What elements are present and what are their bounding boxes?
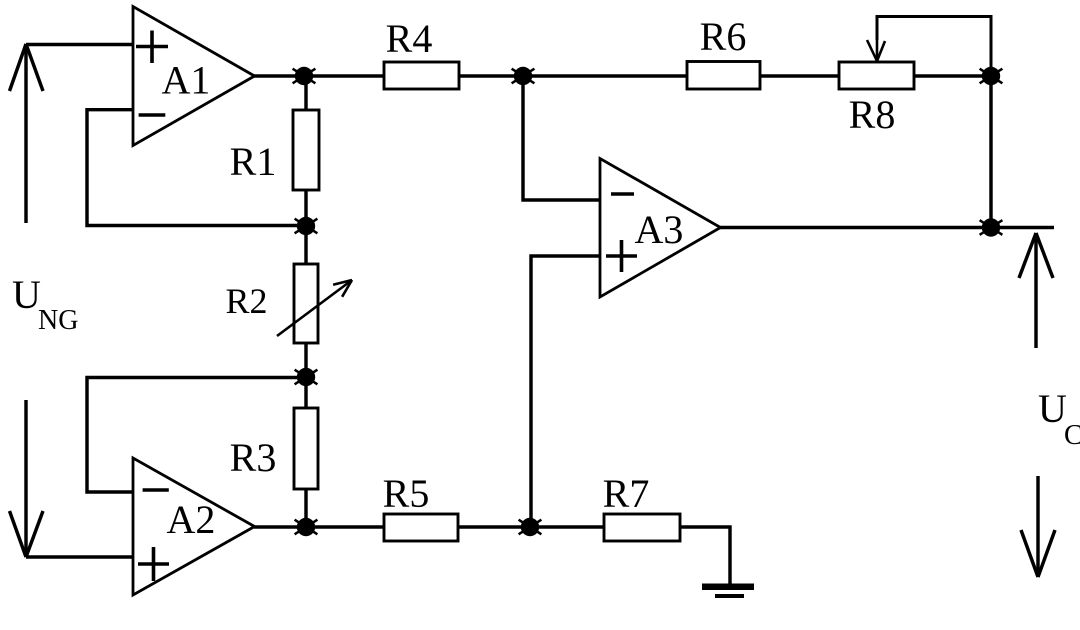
- wire: A3 output: [720, 226, 1054, 229]
- wire: R2 bottom: [304, 343, 307, 377]
- wire: R4 to R6: [459, 74, 687, 77]
- svg-text:R6: R6: [700, 14, 747, 59]
- resistor R3: [294, 408, 318, 489]
- wire: A2 feedback (node C to - input): [87, 378, 306, 493]
- wire: R8 to node D: [914, 74, 991, 77]
- plus sign A2: [138, 547, 169, 581]
- svg-text:NG: NG: [38, 305, 78, 336]
- svg-text:U: U: [12, 272, 41, 317]
- resistor R5: [384, 514, 458, 541]
- node A (R4/A3- junction): [512, 67, 535, 85]
- plus sign A1: [136, 31, 168, 64]
- resistor R7: [604, 514, 680, 541]
- wire: node D down to output node F: [989, 76, 992, 227]
- op-amp A3: [600, 159, 721, 298]
- wire: R1 bottom: [304, 190, 307, 226]
- arrow down (U_NG bottom): [10, 400, 44, 557]
- arrow up (U_C top): [1019, 233, 1053, 348]
- node A1-out junction: [293, 67, 316, 85]
- resistor R1: [293, 110, 319, 190]
- node D (R8 right junction): [980, 67, 1003, 85]
- svg-text:R5: R5: [383, 471, 430, 516]
- minus sign A3: [611, 192, 634, 196]
- svg-text:U: U: [1038, 386, 1067, 431]
- wire: node A down to A3 - input: [523, 76, 600, 200]
- wire: node E up to A3 + input: [531, 256, 600, 527]
- resistor R6: [687, 62, 760, 90]
- wire: R5 to R7: [458, 525, 604, 528]
- arrow: R8 wiper: [867, 36, 885, 61]
- wire: A1 output to R4: [254, 74, 384, 77]
- svg-text:R3: R3: [230, 435, 277, 480]
- potentiometer R8: [839, 62, 914, 89]
- variable resistor R2: [294, 264, 318, 343]
- svg-text:R7: R7: [603, 471, 650, 516]
- arrow down (U_C bottom): [1021, 476, 1055, 577]
- svg-text:R2: R2: [225, 281, 267, 321]
- wire: A1 feedback (- input to node B): [87, 110, 306, 226]
- svg-text:A1: A1: [162, 58, 211, 103]
- svg-text:R4: R4: [386, 16, 433, 61]
- wire: R3 top: [304, 377, 307, 408]
- wire: U_NG bottom input to A2 +: [26, 555, 134, 558]
- plus sign A3: [606, 240, 637, 272]
- minus sign A2: [143, 488, 169, 492]
- node B (R1/R2 junction): [295, 217, 318, 235]
- wire: A2 output to R5: [254, 525, 384, 528]
- svg-text:A2: A2: [167, 497, 216, 542]
- arrow through R2: [277, 280, 352, 336]
- resistor R4: [384, 62, 459, 89]
- wire: R7 to ground: [680, 527, 730, 585]
- arrow up (U_NG top): [10, 44, 44, 223]
- wire: U_NG top input to A1 +: [26, 43, 134, 46]
- node A2-out (R3/R5 junction): [295, 518, 318, 536]
- minus sign A1: [139, 113, 166, 117]
- ground: [702, 584, 754, 599]
- op-amp A1: [133, 7, 255, 146]
- node F (output junction): [980, 218, 1003, 236]
- node E (R5/R7/A3+ junction): [519, 518, 542, 536]
- svg-text:C: C: [1064, 420, 1080, 451]
- op-amp A2: [133, 458, 255, 595]
- svg-text:A3: A3: [635, 207, 684, 252]
- wire: R2 top: [304, 225, 307, 264]
- wire: R1 top: [304, 76, 307, 110]
- svg-text:R1: R1: [230, 139, 277, 184]
- svg-text:R8: R8: [849, 92, 896, 137]
- wire: R6 to R8: [760, 74, 839, 77]
- node C (R2/R3 junction): [295, 368, 318, 386]
- wire: R8 wiper bracket: [877, 17, 991, 77]
- wire: R3 bottom: [304, 489, 307, 528]
